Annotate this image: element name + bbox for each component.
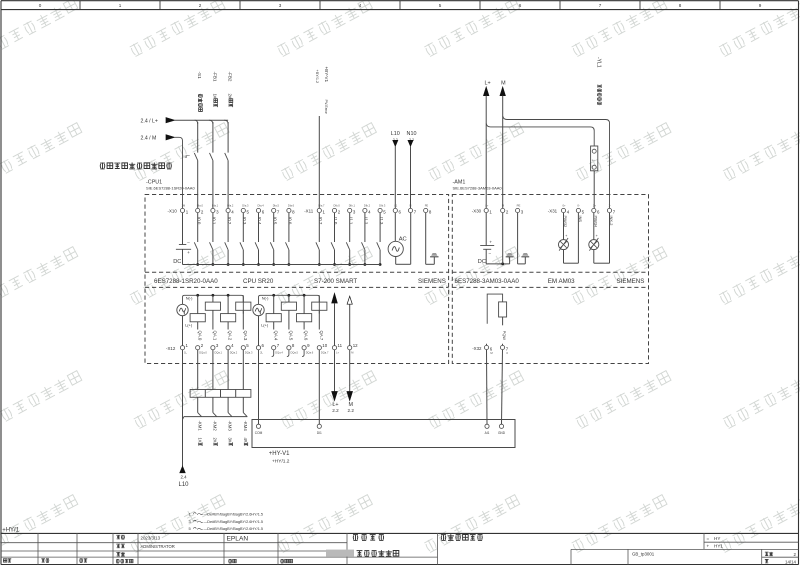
svg-text:-KM3: -KM3 [228,421,233,432]
svg-text:3#: 3# [228,438,233,443]
relay coil QA.1 [212,295,214,302]
svg-text:L+: L+ [336,351,339,355]
wire -X12:10 to DI1 [318,350,320,424]
wire 1L rail down to L10 [182,350,184,466]
relay coil QA.4 [273,295,275,313]
CPU input contact I1.2 [364,217,369,225]
interruption point L+ 2.2 [334,350,336,392]
svg-text:SIE.6ES7288-1SR20-0AA0: SIE.6ES7288-1SR20-0AA0 [146,186,195,191]
CPU sensor supply L+ arrow [332,293,338,303]
svg-text:QA.6: QA.6 [304,331,309,341]
svg-text:QA.4: QA.4 [273,331,278,341]
wire M branch to -X31:7 [503,116,610,208]
svg-text:2.4 / L+: 2.4 / L+ [141,119,158,125]
svg-text:I0.6: I0.6 [288,217,293,225]
svg-text:DIa.0: DIa.0 [197,204,204,208]
svg-text:L(+): L(+) [185,322,193,327]
svg-text:-X10: -X10 [168,208,178,213]
CPU input contact I0.2 [227,217,232,225]
svg-text:M: M [351,351,353,355]
svg-text:DQa.0: DQa.0 [199,351,207,355]
relay coil QA.6 [303,295,305,313]
+HY-V1 terminal COM [256,424,260,428]
svg-text:+: + [596,234,598,238]
svg-text:-X31: -X31 [548,208,558,213]
svg-text:DC: DC [478,259,486,265]
contactor -KM3 3#泵 [227,350,229,390]
AM1 analog input channel [563,213,565,240]
svg-text:-FB1: -FB1 [212,72,217,82]
svg-text:QA.3: QA.3 [243,331,248,341]
svg-text:PV.Error: PV.Error [324,100,328,115]
svg-text:L+: L+ [485,204,489,208]
svg-text:6: 6 [519,3,522,8]
svg-text:I1.3: I1.3 [379,217,384,225]
svg-text:11: 11 [338,343,343,348]
stub under -X12:7 [272,350,274,357]
svg-text:DI1: DI1 [317,431,322,435]
svg-text:M: M [501,81,506,87]
svg-text:0-: 0- [577,204,580,208]
svg-text:—De#BY/BagBY/BagBY/2.6HY/1.5: —De#BY/BagBY/BagBY/2.6HY/1.5 [204,520,264,524]
AM1 analog output load resistor PQW [487,294,502,324]
relay output group 2 common [259,295,320,313]
svg-text:SIE.6ES7288-3AM03-0AA0: SIE.6ES7288-3AM03-0AA0 [453,186,503,191]
ruler ticks and numbers [79,1,81,10]
svg-text:+: + [489,239,492,244]
wire +BY-V1 PV.Error drop to -X11:1 [324,67,329,83]
wire M drop to -X10:1 [175,137,183,208]
svg-text:6ES7288-1SR20-0AA0: 6ES7288-1SR20-0AA0 [154,278,218,285]
svg-text:GND: GND [498,431,506,435]
svg-text:QA.0: QA.0 [197,331,202,341]
svg-text:SIEMENS: SIEMENS [617,278,645,285]
title block [1,532,799,534]
svg-text:1: 1 [184,155,186,159]
svg-text:EM AM03: EM AM03 [548,278,575,285]
svg-text:I0.0: I0.0 [196,217,201,225]
wire L+ to -X30:1 [485,96,487,209]
svg-text:1-: 1- [609,204,612,208]
svg-text:0: 0 [39,3,42,8]
switch -FB1 1#液位 [212,72,217,82]
svg-text:1+: 1+ [593,204,597,208]
svg-text:-KM2: -KM2 [213,421,218,432]
wire L+ branch to transducer [486,123,594,146]
wire -X32:7 to GND [502,350,503,425]
svg-text:N10: N10 [407,131,417,137]
svg-text:DIb.1: DIb.1 [349,204,356,208]
svg-text:I0.1: I0.1 [212,217,217,225]
CPU1 dashed enclosure [145,195,449,364]
svg-text:-X30: -X30 [472,208,482,213]
AM1 PE ground 2 [517,213,519,264]
svg-text:I1.2: I1.2 [364,217,369,225]
svg-text:L+: L+ [332,402,338,408]
svg-text:DQa.1: DQa.1 [215,351,223,355]
svg-text:AC: AC [399,237,407,243]
svg-text:AI1: AI1 [485,431,490,435]
title block texts [116,535,120,539]
svg-text:DIa.1: DIa.1 [212,204,219,208]
svg-text:DQa.6: DQa.6 [306,351,314,355]
svg-text:4: 4 [359,3,362,8]
device box +HY-V1 [252,420,515,448]
AM1 M/ground bus [486,263,509,265]
svg-text:-S1: -S1 [197,72,202,80]
wire L+ rail [175,119,229,121]
svg-text:EPLAN: EPLAN [227,535,249,542]
svg-text:-KM4: -KM4 [243,421,248,432]
svg-text:I0.3: I0.3 [242,217,247,225]
svg-text:2023/3/13: 2023/3/13 [141,535,161,540]
svg-text:PQW: PQW [502,331,507,341]
AM1 ground 1 [509,257,511,264]
svg-text:10: 10 [322,343,327,348]
svg-text:+HY/1: +HY/1 [2,527,20,533]
svg-text:S7-200 SMART: S7-200 SMART [314,278,357,285]
switch -FB2 2#液位 [228,72,233,82]
AM1 dashed enclosure [452,195,648,364]
CPU input contact I0.5 [272,217,277,225]
watermark pattern [0,0,78,57]
svg-text:2: 2 [199,3,202,8]
svg-text:1: 1 [119,3,122,8]
svg-text:1M: 1M [182,204,186,208]
svg-text:ADMINISTRATOR: ADMINISTRATOR [141,544,175,549]
svg-text:DQa.4: DQa.4 [275,351,283,355]
svg-text:GB_tp3001: GB_tp3001 [632,552,655,557]
CPU input contact I0.1 [212,217,217,225]
svg-text:+HY/1.2: +HY/1.2 [272,459,290,465]
svg-text:M: M [348,402,353,408]
svg-text:N(-): N(-) [262,296,269,301]
CPU input contact I0.6 [288,217,293,225]
AM1 internal DC source [485,213,487,246]
CPU AC power supply [394,213,396,242]
svg-text:PE: PE [517,204,521,208]
svg-text:-YL1: -YL1 [596,57,602,68]
wire -X32:6 to AI1 [486,350,489,425]
svg-text:I1.1: I1.1 [348,217,353,225]
switch -S1 启停旋钮 [197,72,202,80]
contactor -KM1 1#泵 [197,350,199,390]
KM coil common bus [184,416,248,418]
wire M to -X30:2 [502,96,504,209]
interruption point L10 bottom [180,466,185,473]
contactor coil bar -KM1..-KM4 [190,390,251,398]
CPU input contact I0.7 [318,217,323,225]
svg-text:3: 3 [279,3,282,8]
relay coil QA.2 [227,295,229,313]
AM1 analog input channel [593,213,595,240]
interruption point M 2.2 [349,350,351,392]
svg-text:DQa.2: DQa.2 [230,351,238,355]
svg-text:L+: L+ [592,158,595,162]
note 旋钮装于本控制柜面板 [100,163,105,169]
CPU input contact I0.4 [257,217,262,225]
CPU input contact I0.3 [242,217,247,225]
svg-text:1#: 1# [197,438,202,443]
svg-text:I0.2: I0.2 [227,217,232,225]
svg-text:—De#BY/BagBY/BagBY/2.6HY/1.5: —De#BY/BagBY/BagBY/2.6HY/1.5 [204,527,264,531]
svg-text:9: 9 [759,3,762,8]
CPU input contact I0.0 [196,217,201,225]
contactor -KM4 4#泵 [242,350,244,390]
svg-text:I1.0: I1.0 [333,217,338,225]
svg-text:2.2: 2.2 [348,408,355,413]
+HY-V1 terminal DI1 [317,424,321,428]
stub under -X12:9 [302,350,304,357]
svg-text:+: + [565,234,567,238]
svg-text:+BY-V1: +BY-V1 [324,67,329,83]
svg-text:14/14: 14/14 [785,559,797,564]
svg-text:-KM1: -KM1 [197,421,202,432]
CPU1 rack strip dividers [145,271,449,273]
CPU input contact I1.3 [379,217,384,225]
svg-text:L(+): L(+) [261,322,269,327]
svg-text:DQa.7: DQa.7 [321,351,329,355]
svg-text:-X11: -X11 [304,208,314,213]
svg-text:DIa.4: DIa.4 [258,204,265,208]
svg-text:2#: 2# [228,94,233,100]
svg-text:QA.7: QA.7 [319,331,324,341]
svg-text:L10: L10 [391,131,400,137]
svg-text:+: + [187,250,190,255]
transducer -YL1 反渗透压力 [596,57,602,68]
svg-text:DIa.7: DIa.7 [318,204,325,208]
svg-text:HY: HY [714,536,720,541]
svg-text:=: = [707,536,710,541]
svg-text:2#: 2# [213,438,218,443]
relay coil QA.3 [242,295,244,302]
svg-text:-X32: -X32 [472,346,482,351]
CPU internal DC source [182,213,184,245]
svg-text:8: 8 [679,3,682,8]
svg-text:5: 5 [439,3,442,8]
+HY-V1 terminal AI1 [485,424,489,428]
svg-text:PE: PE [425,204,429,208]
svg-text:DIb.0: DIb.0 [334,204,341,208]
svg-text:-X12: -X12 [166,346,176,351]
stub under -X12:8 [287,350,289,357]
page frame [1,0,799,2]
svg-text:+: + [707,544,710,549]
wire DC input common bus [183,264,381,266]
CPU PE ground [425,213,427,265]
svg-text:+BY/1.2: +BY/1.2 [315,70,319,84]
svg-text:0+: 0+ [563,204,567,208]
svg-text:6ES7288-3AM03-0AA0: 6ES7288-3AM03-0AA0 [455,278,520,285]
svg-text:I0.5: I0.5 [272,217,277,225]
+HY-V1 terminal GND [499,424,503,428]
CPU sensor supply M arrow [347,296,352,304]
svg-text:QA.2: QA.2 [228,331,233,341]
relay coil QA.5 [288,295,290,302]
svg-text:QA.1: QA.1 [213,331,218,341]
contactor -KM2 2#泵 [212,350,214,390]
svg-text:DIa.6: DIa.6 [288,204,295,208]
svg-text:SIEMENS: SIEMENS [418,278,446,285]
svg-text:QA.5: QA.5 [289,331,294,341]
svg-text:COM: COM [255,431,263,435]
svg-text:—De#BY/BagBY/BagBY/2.6HY/1.5: —De#BY/BagBY/BagBY/2.6HY/1.5 [204,512,264,516]
svg-text:1#: 1# [212,94,217,100]
svg-text:DIb.3: DIb.3 [379,204,386,208]
CPU input contact I1.1 [348,217,353,225]
svg-text:HY1: HY1 [714,544,723,549]
svg-text:I0.7: I0.7 [318,217,323,225]
relay coil QA.7 [318,295,320,302]
svg-text:CPU SR20: CPU SR20 [243,278,274,285]
CPU input contact I1.0 [333,217,338,225]
svg-text:7: 7 [599,3,602,8]
svg-text:N: N [410,204,412,208]
AM1 rack strip dividers [452,271,648,273]
svg-text:2.4: 2.4 [180,475,187,480]
svg-text:N(-): N(-) [186,296,193,301]
svg-text:12: 12 [353,343,358,348]
svg-text:I0.4: I0.4 [257,217,262,225]
svg-text:+HY-V1: +HY-V1 [269,451,290,457]
svg-text:DIb.2: DIb.2 [364,204,371,208]
wire -X12:6 to COM [258,350,260,424]
svg-text:L10: L10 [178,482,189,488]
svg-text:DIa.5: DIa.5 [273,204,280,208]
svg-text:-FB2: -FB2 [228,72,233,82]
svg-text:DQa.5: DQa.5 [291,351,299,355]
svg-text:2.4 / M: 2.4 / M [141,136,157,142]
relay output group 1 common [183,295,244,313]
svg-text:4#: 4# [243,438,248,443]
svg-text:DQa.3: DQa.3 [245,351,253,355]
svg-text:2.2: 2.2 [332,408,339,413]
svg-text:L+: L+ [485,81,491,87]
relay coil QA.0 [197,295,199,313]
svg-text:DIa.2: DIa.2 [227,204,234,208]
svg-text:DIa.3: DIa.3 [242,204,249,208]
svg-text:DC: DC [173,259,181,265]
